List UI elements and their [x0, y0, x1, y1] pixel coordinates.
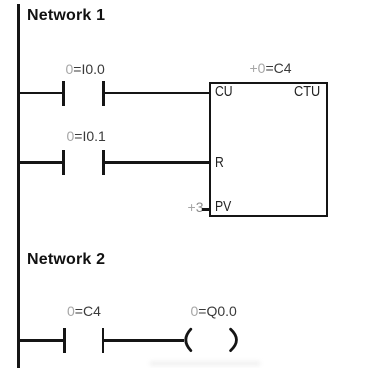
- label 0=I0.1: [67, 129, 106, 143]
- contact I0.1 left bar: [62, 150, 65, 175]
- network 2 title: [27, 252, 105, 268]
- pin R: [215, 156, 224, 170]
- contact C4 right bar: [102, 328, 105, 353]
- wire rung2 left: [18, 161, 63, 164]
- faint artifact bottom: [150, 361, 260, 366]
- wire rung2 right: [103, 161, 211, 164]
- wire rung1 left: [18, 92, 63, 95]
- coil right paren: [231, 329, 237, 350]
- label 0=C4: [67, 304, 101, 318]
- coil left paren: [186, 329, 191, 350]
- wire rung3 right: [103, 339, 184, 342]
- label 0=Q0.0: [191, 304, 237, 318]
- wire rung3 left: [18, 339, 63, 342]
- contact I0.0 right bar: [102, 81, 105, 106]
- network 1 title: [27, 8, 105, 24]
- pin CU: [215, 85, 233, 99]
- contact C4 left bar: [63, 328, 66, 353]
- counter box U: C4 CTU: [209, 82, 328, 217]
- contact I0.0 left bar: [62, 81, 65, 106]
- PV stub wire: [202, 208, 210, 211]
- pin CTU: [294, 85, 320, 99]
- label 0=I0.0: [66, 62, 105, 76]
- wire rung1 right: [103, 92, 211, 95]
- contact I0.1 right bar: [102, 150, 105, 175]
- left power rail: [17, 4, 20, 368]
- coil Q0.0: [174, 322, 246, 356]
- counter value label +0=C4: [250, 61, 292, 75]
- PV value label +3: [188, 200, 204, 214]
- pin PV: [215, 200, 231, 214]
